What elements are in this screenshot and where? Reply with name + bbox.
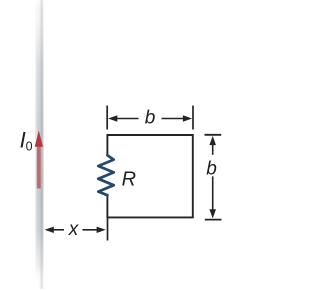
loop: rectangular circuit loop (top, right, bottom edges + left edge segments) bbox=[107, 135, 192, 217]
dimension x: tick below loop corner bbox=[107, 218, 109, 241]
wire cylinder shading bbox=[35, 0, 43, 289]
current arrow I0 (red, pointing up along wire) bbox=[35, 131, 43, 189]
svg-text:x: x bbox=[68, 219, 80, 240]
dimension b (right): bottom tick bbox=[205, 219, 222, 221]
dimension b (top): right arrow bbox=[162, 115, 193, 121]
resistor R (blue zigzag on left side of loop) bbox=[98, 155, 113, 195]
wire (long straight vertical wire) bbox=[35, 0, 43, 289]
svg-text:0: 0 bbox=[26, 140, 33, 154]
dimension b (top): left extension tick bbox=[106, 106, 108, 130]
dimension b (right): down arrow bbox=[209, 176, 216, 218]
svg-text:R: R bbox=[122, 169, 136, 191]
dimension b (top): right extension tick bbox=[192, 106, 194, 130]
dimension b (top): left arrow bbox=[108, 115, 138, 121]
dimension b (right): up arrow bbox=[209, 136, 216, 155]
dimension b (right): top tick bbox=[205, 134, 222, 136]
dimension x: left arrow (tip at wire) bbox=[45, 227, 64, 233]
svg-text:b: b bbox=[206, 158, 217, 179]
dimension x: right arrow (tip at loop) bbox=[82, 227, 105, 233]
svg-text:b: b bbox=[145, 108, 156, 129]
